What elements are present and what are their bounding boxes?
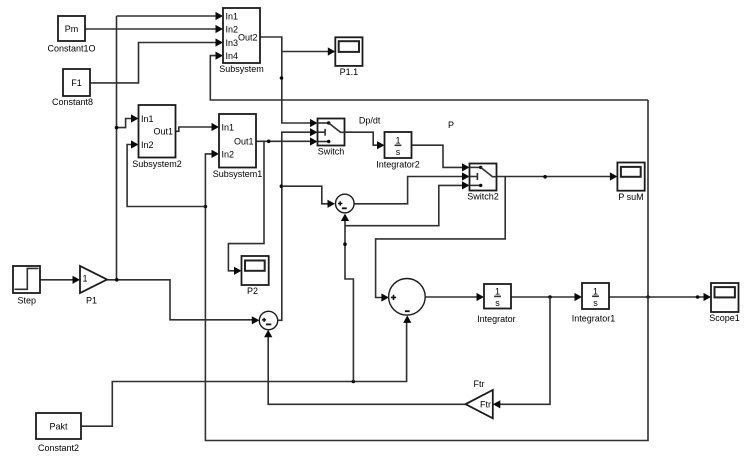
wire branch to P1.1 scope [282, 51, 329, 53]
node dot on Out2 net [280, 76, 284, 80]
wire feedback branch to big sum left input [376, 177, 506, 298]
svg-text:In2: In2 [226, 24, 239, 34]
svg-text:1: 1 [495, 287, 500, 297]
wire branch up to Sum204 bottom [345, 220, 353, 382]
arrow P2 input [234, 267, 242, 275]
wire Step to P1 [40, 279, 74, 281]
node dot on minus rail [352, 380, 356, 384]
svg-text:1: 1 [395, 135, 400, 145]
svg-text:P suM: P suM [618, 192, 643, 202]
svg-text:Scope1: Scope1 [709, 313, 740, 323]
wire F1 to In3 [90, 43, 216, 83]
integrator Integrator2 [385, 132, 412, 158]
node dot on Switch2 output [543, 175, 547, 179]
svg-text:Pm: Pm [65, 24, 79, 34]
wire branch to Subsystem2 In2 [127, 145, 205, 207]
node junction at P1 column [115, 126, 119, 130]
svg-text:P: P [448, 120, 454, 130]
svg-text:Pakt: Pakt [49, 422, 68, 432]
arrow P suM input [610, 172, 618, 180]
svg-text:Ftr: Ftr [480, 400, 491, 410]
node dot on Out1 [267, 140, 271, 144]
wire branch to Sum204 left input [282, 186, 329, 204]
svg-text:Integrator2: Integrator2 [376, 159, 420, 169]
svg-text:Constant1O: Constant1O [47, 44, 95, 54]
svg-text:Out2: Out2 [238, 32, 258, 42]
constant Pakt (Constant2) [36, 413, 81, 439]
svg-text:s: s [495, 298, 500, 308]
switch Switch2 [470, 164, 497, 191]
wire Ftr output to SumP2 bottom [268, 336, 465, 404]
svg-text:Out1: Out1 [153, 127, 173, 137]
wire P1 output to SumP2 [107, 280, 253, 320]
scope P1.1 [335, 37, 362, 66]
scope P2 [242, 256, 269, 285]
svg-text:Out1: Out1 [234, 137, 254, 147]
arrow SumP2 bottom input [264, 330, 272, 338]
arrow Switch2 in3 [462, 181, 470, 189]
arrow In1 Subsystem [216, 12, 224, 20]
subsystem Subsystem1 [219, 114, 256, 168]
wire branch down to Ftr gain [500, 297, 551, 404]
sum Sum204 [336, 194, 355, 213]
arrow P1 input [73, 276, 81, 284]
node dot on Sum204 feed [343, 242, 347, 246]
node dot before Scope1 [696, 295, 700, 299]
svg-text:1: 1 [83, 274, 88, 284]
svg-text:In3: In3 [226, 38, 239, 48]
arrow SumP2 left input [252, 316, 259, 324]
sum SumP2 [259, 311, 277, 329]
switch Switch [318, 119, 345, 146]
integrator Integrator [484, 284, 511, 309]
subsystem Subsystem [223, 8, 260, 63]
svg-text:Switch2: Switch2 [467, 192, 499, 202]
svg-text:F1: F1 [71, 78, 82, 88]
wire top rail to In4 [210, 56, 648, 100]
wire branch to Subsystem2 In1 [117, 119, 133, 128]
arrow Scope1 input [704, 293, 712, 301]
gain Ftr [466, 390, 493, 418]
wire right rail loop (up to In4 rail, down to bottom rail) [205, 100, 648, 441]
wire SumP2 output up to Switch in2 [278, 132, 311, 320]
node dot on left return rail [204, 205, 208, 209]
arrow Ftr input [493, 400, 501, 408]
svg-text:P1: P1 [86, 296, 97, 306]
gain P1 [80, 266, 107, 293]
svg-text:In4: In4 [226, 51, 239, 61]
wire Pm to In2 [85, 28, 216, 30]
wire In1 of Subsystem [117, 15, 217, 17]
subsystem Subsystem2 [139, 105, 176, 158]
arrow Switch2 in2 [462, 172, 470, 180]
arrow big sum bottom input [403, 315, 411, 323]
svg-text:Constant8: Constant8 [52, 97, 93, 107]
svg-text:P2: P2 [247, 286, 258, 296]
svg-text:P1.1: P1.1 [340, 67, 359, 77]
wire Pakt up to minus rail [81, 322, 407, 427]
arrow Integrator1 input [575, 293, 583, 301]
scope Scope1 [711, 283, 739, 312]
wire Integrator1 output to Scope1 [609, 296, 705, 298]
svg-text:In1: In1 [141, 114, 154, 124]
arrow Switch in2 [310, 128, 318, 136]
arrow In2 Subsystem [216, 25, 224, 33]
svg-text:Constant2: Constant2 [38, 443, 79, 453]
step Step [13, 266, 40, 293]
arrow Switch in1 [310, 119, 318, 127]
wire Sum204 output to Switch2 in2 [354, 177, 463, 204]
arrow P1.1 input [328, 47, 336, 55]
wire Switch2 output to P suM [497, 176, 612, 178]
svg-text:s: s [396, 147, 401, 157]
arrow Integrator input [477, 293, 485, 301]
svg-text:1: 1 [593, 286, 598, 296]
arrow Integrator2 input [377, 141, 385, 149]
integrator Integrator1 [582, 283, 609, 309]
arrow big sum left input [381, 293, 389, 301]
arrow Subsystem1 In2 [212, 150, 220, 158]
arrow In3 Subsystem [216, 38, 224, 46]
arrow Sum204 left input [328, 200, 336, 208]
wire In1 feed vertical from P1 junction [116, 16, 118, 280]
wire branch to Switch2 in3 [345, 185, 463, 225]
arrow In4 Subsystem [216, 52, 224, 60]
svg-text:Subsystem2: Subsystem2 [132, 159, 182, 169]
wire big sum output to Integrator [426, 296, 478, 298]
node dot after P1 [115, 278, 119, 282]
svg-text:Subsystem1: Subsystem1 [213, 169, 263, 179]
svg-text:Switch: Switch [318, 147, 345, 157]
svg-text:In1: In1 [226, 11, 239, 21]
svg-text:Subsystem: Subsystem [219, 64, 264, 74]
wire Out2 net: Subsystem Out2 down to Switch in1 [260, 37, 311, 123]
wire branch Out1 down to P2 scope [228, 141, 264, 270]
svg-text:In2: In2 [141, 140, 154, 150]
arrow Switch2 in1 [462, 163, 470, 171]
arrow Sum204 bottom input [341, 214, 349, 222]
arrow Switch in3 [310, 137, 318, 145]
svg-text:Step: Step [17, 296, 36, 306]
svg-text:In1: In1 [222, 122, 235, 132]
node dot on SumP2 net [280, 184, 284, 188]
svg-text:Dp/dt: Dp/dt [359, 116, 381, 126]
constant F1 (Constant8) [63, 69, 90, 96]
constant Pm (Constant10) [58, 16, 85, 41]
wire Integrator output to Integrator1 [511, 296, 576, 298]
wire Integrator2 output to Switch2 in1 [412, 145, 464, 167]
wire Subsystem1 Out1 to Switch in3 [256, 140, 311, 142]
node dot on Integrator output [548, 295, 552, 299]
arrow Subsystem2 In1 [131, 114, 139, 122]
svg-text:Ftr: Ftr [474, 379, 485, 389]
svg-text:s: s [593, 298, 598, 308]
node dot at right rail junction [646, 295, 650, 299]
arrow Subsystem2 In2 [131, 140, 139, 148]
scope P suM [617, 163, 644, 191]
arrow Subsystem1 In1 [212, 123, 220, 131]
svg-text:In2: In2 [222, 149, 235, 159]
svg-text:Integrator1: Integrator1 [572, 314, 616, 324]
sum big Sum [389, 279, 426, 316]
wire Switch output to Integrator2 [345, 132, 379, 145]
wire Subsystem2 Out1 to Subsystem1 In1 [176, 127, 214, 131]
svg-text:Integrator: Integrator [477, 314, 516, 324]
